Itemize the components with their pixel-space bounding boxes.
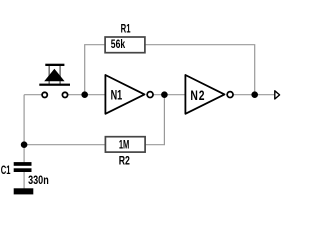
svg-text:1M: 1M (119, 139, 129, 152)
svg-text:R2: R2 (119, 156, 130, 169)
svg-text:330n: 330n (28, 174, 49, 188)
svg-text:56k: 56k (111, 39, 125, 52)
svg-text:N1: N1 (111, 88, 123, 103)
svg-text:N2: N2 (190, 87, 205, 103)
svg-text:C1: C1 (1, 164, 11, 177)
svg-text:R1: R1 (121, 23, 131, 36)
